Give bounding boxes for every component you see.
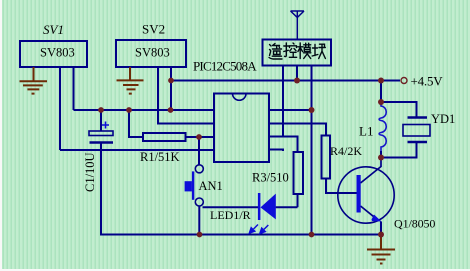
svg-text:Q1/8050: Q1/8050: [394, 217, 435, 231]
svg-text:R1/51K: R1/51K: [140, 150, 180, 164]
svg-text:+4.5V: +4.5V: [411, 74, 444, 89]
svg-text:R3/510: R3/510: [252, 171, 289, 185]
svg-text:PIC12C508A: PIC12C508A: [193, 59, 257, 74]
svg-text:AN1: AN1: [199, 179, 223, 193]
svg-text:C1/10U: C1/10U: [83, 152, 97, 192]
svg-text:LED1/R: LED1/R: [210, 208, 251, 222]
svg-text:R4/2K: R4/2K: [330, 144, 362, 158]
svg-text:L1: L1: [359, 123, 373, 138]
svg-text:SV2: SV2: [142, 22, 165, 37]
svg-text:SV803: SV803: [40, 46, 75, 60]
svg-text:SV1: SV1: [43, 22, 64, 37]
svg-text:YD1: YD1: [431, 112, 455, 126]
svg-text:SV803: SV803: [135, 46, 170, 60]
